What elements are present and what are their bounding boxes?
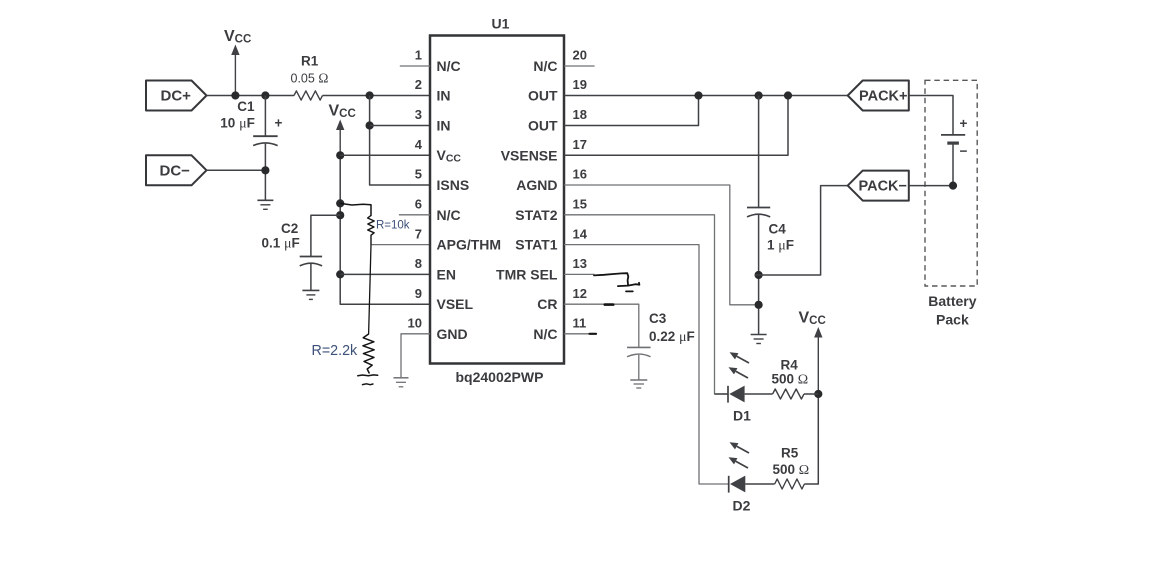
- pin 11 stub N/C: [564, 333, 595, 335]
- wire C3 to ground: [638, 355, 640, 380]
- svg-text:1: 1: [415, 48, 422, 63]
- node junction R4 VCC: [814, 390, 822, 398]
- node junction pin 3: [366, 121, 374, 129]
- pin 10 GND wire: [401, 334, 430, 378]
- hand-drawn tick near pin 11: [590, 333, 597, 335]
- wire to pin 8 EN: [340, 273, 430, 275]
- resistor R4: [773, 389, 804, 399]
- svg-text:IN: IN: [437, 88, 451, 104]
- wire pin 14 STAT1 to D2: [564, 245, 729, 484]
- wire DC- to C1 node: [207, 169, 266, 171]
- wire R4 to VCC node: [804, 393, 818, 395]
- wire PACK+ to battery: [909, 96, 953, 135]
- svg-text:0.05 Ω: 0.05 Ω: [291, 70, 329, 85]
- resistor R=10k hand-drawn: [368, 215, 375, 244]
- svg-text:VSENSE: VSENSE: [501, 147, 558, 163]
- svg-text:C3: C3: [649, 311, 667, 326]
- wire C2 to ground: [310, 264, 312, 291]
- wire PACK- to battery node: [909, 185, 953, 187]
- svg-text:7: 7: [415, 226, 422, 241]
- svg-text:17: 17: [573, 137, 587, 152]
- svg-text:1 μF: 1 μF: [767, 237, 794, 253]
- node junction battery minus: [949, 182, 957, 190]
- connector PACK+: [848, 81, 909, 111]
- pin 13 stub TMR SEL: [564, 273, 595, 275]
- wire pin 18 OUT branch: [564, 96, 699, 126]
- connector PACK-: [848, 171, 909, 201]
- wire pin 16 AGND: [564, 185, 755, 305]
- svg-text:PACK−: PACK−: [859, 178, 907, 194]
- svg-text:PACK+: PACK+: [859, 88, 907, 104]
- svg-text:N/C: N/C: [533, 58, 557, 74]
- node junction OUT: [694, 91, 702, 99]
- ground below C1: [257, 200, 273, 209]
- svg-text:5: 5: [415, 167, 422, 182]
- node junction C4 PACK- tap: [755, 271, 763, 279]
- svg-text:500 Ω: 500 Ω: [773, 462, 810, 478]
- wire VCC rail down to VSEL: [340, 155, 430, 304]
- svg-text:15: 15: [573, 197, 587, 212]
- wire pin 19 OUT to PACK+: [564, 95, 848, 97]
- LED D1 emission arrows: [730, 352, 750, 363]
- svg-text:R4: R4: [781, 358, 799, 373]
- ground below C2: [302, 290, 319, 299]
- svg-text:Pack: Pack: [936, 312, 969, 328]
- svg-text:4: 4: [415, 137, 423, 152]
- svg-text:6: 6: [415, 197, 422, 212]
- svg-text:AGND: AGND: [516, 177, 557, 193]
- svg-text:OUT: OUT: [528, 118, 558, 134]
- svg-text:C2: C2: [281, 221, 298, 236]
- svg-text:8: 8: [415, 256, 422, 271]
- wire pin 17 VSENSE branch: [564, 96, 788, 156]
- svg-text:20: 20: [573, 48, 587, 63]
- node junction AGND: [755, 301, 763, 309]
- resistor R5: [775, 479, 805, 489]
- hand-drawn mark on pin 13 TMR SEL: [594, 273, 628, 285]
- pin 20 stub N/C: [564, 65, 595, 67]
- svg-text:R=10k: R=10k: [376, 219, 410, 231]
- svg-text:+: +: [275, 116, 283, 131]
- svg-text:−: −: [960, 143, 968, 158]
- connector DC+: [146, 81, 207, 111]
- hand-drawn wire down to R=2.2k: [369, 245, 371, 334]
- LED D1: [715, 386, 773, 403]
- svg-text:10 μF: 10 μF: [220, 116, 255, 132]
- battery cell BT1: [941, 135, 965, 143]
- svg-text:0.1 μF: 0.1 μF: [262, 235, 300, 251]
- wire C2 branch: [311, 215, 340, 256]
- node junction C4 top: [755, 91, 763, 99]
- svg-text:14: 14: [573, 226, 588, 241]
- svg-text:DC+: DC+: [161, 88, 192, 105]
- wire to pin 4 VCC: [340, 154, 430, 156]
- power VCC symbol mid rail: [336, 120, 344, 156]
- svg-text:APG/THM: APG/THM: [437, 237, 502, 253]
- svg-text:C1: C1: [237, 99, 255, 114]
- svg-text:13: 13: [573, 256, 587, 271]
- svg-text:U1: U1: [492, 16, 510, 32]
- connector DC-: [146, 155, 207, 185]
- svg-text:11: 11: [573, 316, 587, 331]
- svg-text:0.22 μF: 0.22 μF: [649, 329, 695, 345]
- wire pin 7 APG/THM: [371, 244, 430, 246]
- pin 1 stub N/C: [400, 65, 430, 67]
- node junction C1 branch: [261, 91, 269, 99]
- wire PACK- to C4 node: [755, 186, 848, 275]
- battery pack dashed boundary: [925, 80, 977, 286]
- svg-text:R5: R5: [781, 446, 799, 461]
- svg-text:18: 18: [573, 107, 587, 122]
- svg-text:9: 9: [415, 286, 422, 301]
- svg-text:VSEL: VSEL: [437, 296, 474, 312]
- power VCC symbol at input: [231, 45, 239, 96]
- capacitor C4: [747, 96, 770, 335]
- node junction pin 8 EN: [336, 270, 344, 278]
- svg-text:D2: D2: [733, 498, 751, 514]
- svg-text:Battery: Battery: [928, 293, 976, 309]
- wire pin 12 CR to C3: [564, 304, 639, 347]
- svg-text:STAT1: STAT1: [515, 237, 557, 253]
- node junction pin 4 VCC: [336, 151, 344, 159]
- ground below C3: [630, 380, 647, 388]
- svg-text:2: 2: [415, 77, 422, 92]
- LED D2 emission arrows: [730, 442, 750, 453]
- capacitor C3: [627, 347, 651, 356]
- wire IN branch down to pin 3 and pin 5: [370, 96, 430, 186]
- svg-text:STAT2: STAT2: [515, 207, 557, 223]
- svg-text:bq24002PWP: bq24002PWP: [456, 369, 544, 385]
- svg-text:3: 3: [415, 107, 422, 122]
- svg-text:OUT: OUT: [528, 88, 558, 104]
- svg-text:500 Ω: 500 Ω: [772, 372, 809, 388]
- svg-text:12: 12: [573, 286, 587, 301]
- wire battery to PACK-: [952, 143, 954, 186]
- hand-drawn tick on pin 12 CR wire: [605, 303, 613, 306]
- svg-text:+: +: [960, 116, 968, 131]
- node junction VCC branch: [231, 91, 239, 99]
- wire DC+ to R1: [207, 95, 295, 97]
- pin 6 stub N/C: [399, 214, 430, 216]
- node junction IN branch: [366, 91, 374, 99]
- svg-text:R1: R1: [301, 53, 319, 68]
- wire R1 to pin 2 IN: [323, 95, 431, 97]
- capacitor C2: [300, 257, 322, 266]
- hand-drawn ground below R=2.2k: [358, 374, 378, 377]
- svg-text:CR: CR: [537, 296, 557, 312]
- svg-text:DC−: DC−: [160, 162, 191, 179]
- svg-text:EN: EN: [437, 266, 456, 282]
- svg-text:TMR SEL: TMR SEL: [496, 266, 558, 282]
- svg-text:16: 16: [573, 167, 587, 182]
- svg-text:GND: GND: [437, 326, 468, 342]
- svg-text:19: 19: [573, 77, 587, 92]
- IC U1 body: [430, 36, 564, 364]
- svg-text:C4: C4: [769, 221, 787, 236]
- power VCC symbol LED rail: [814, 327, 822, 394]
- node junction VSENSE: [784, 91, 792, 99]
- svg-text:ISNS: ISNS: [437, 177, 470, 193]
- svg-text:IN: IN: [437, 118, 451, 134]
- resistor R1: [294, 91, 323, 100]
- hand-drawn wire to resistor R=10k: [340, 203, 371, 215]
- svg-text:R=2.2k: R=2.2k: [312, 343, 359, 359]
- ground at pin 10 GND: [394, 378, 409, 387]
- svg-text:N/C: N/C: [437, 58, 461, 74]
- svg-text:10: 10: [408, 316, 422, 331]
- ground below C4: [751, 335, 767, 344]
- svg-text:D1: D1: [733, 408, 751, 424]
- wire pin 15 STAT2 to D1: [564, 215, 728, 394]
- svg-text:N/C: N/C: [437, 207, 461, 223]
- svg-text:N/C: N/C: [533, 326, 557, 342]
- LED D2: [729, 476, 775, 493]
- wire to pin 3 IN: [370, 125, 430, 127]
- wire VCC rail to R5: [804, 394, 818, 484]
- node junction R10k tap: [336, 199, 344, 207]
- resistor R=2.2k hand-drawn: [363, 334, 374, 374]
- node junction DC- at C1: [261, 166, 269, 174]
- node junction C2 tap: [336, 211, 344, 219]
- capacitor C1: [253, 96, 278, 201]
